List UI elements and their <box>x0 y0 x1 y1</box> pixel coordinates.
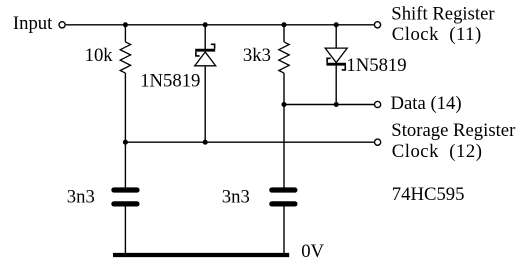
wire data node down to C2 <box>283 105 285 188</box>
wire C2 to ground rail <box>283 207 285 256</box>
junction storage rail / D1 <box>203 140 208 145</box>
wire top rail to R2 <box>283 25 285 42</box>
terminal Shift Register Clock <box>374 22 380 28</box>
node Storage Register Clock (12) label <box>391 120 516 162</box>
junction top rail / R1 <box>123 22 128 27</box>
svg-text:74HC595: 74HC595 <box>392 184 465 205</box>
junction top rail / R2 <box>281 22 286 27</box>
svg-text:Clock (12): Clock (12) <box>392 141 483 162</box>
svg-text:Input: Input <box>13 13 53 34</box>
diode D2 1N5819 (cathode down) <box>325 48 347 70</box>
resistor 10k <box>120 42 130 73</box>
resistor 3k3 <box>279 42 289 73</box>
wire top rail to R1 <box>124 25 126 42</box>
wire data rail <box>284 104 374 106</box>
junction data rail / D2 <box>334 102 339 107</box>
svg-text:1N5819: 1N5819 <box>140 71 200 92</box>
terminal Storage Register Clock <box>375 139 381 145</box>
capacitor 3n3 (left) <box>114 190 137 204</box>
svg-text:3n3: 3n3 <box>222 187 250 208</box>
svg-text:1N5819: 1N5819 <box>346 55 406 76</box>
capacitor 3n3 (right) <box>272 190 295 204</box>
svg-text:Clock (11): Clock (11) <box>392 24 482 45</box>
svg-text:3n3: 3n3 <box>67 187 95 208</box>
node Shift Register Clock (11) label <box>391 4 495 45</box>
diode D1 1N5819 (cathode up) <box>195 44 216 66</box>
junction storage rail / C1 <box>123 140 128 145</box>
input terminal <box>59 22 65 28</box>
wire storage rail to C1 <box>124 142 126 187</box>
wire R1 to storage rail <box>124 73 126 142</box>
junction top rail / D2 <box>334 22 339 27</box>
wire R2 to data rail <box>283 73 285 104</box>
junction data rail / R2 <box>281 102 286 107</box>
junction top rail / D1 <box>203 22 208 27</box>
wire D1 anode to storage rail <box>204 66 206 142</box>
wire top rail input to shift register clock terminal <box>66 24 374 26</box>
svg-text:0V: 0V <box>301 241 324 262</box>
wire top rail to D2 anode <box>335 25 337 48</box>
svg-text:Storage Register: Storage Register <box>391 120 516 141</box>
wire D2 cathode to data rail <box>335 66 337 105</box>
wire top rail to D1 cathode <box>204 25 206 49</box>
svg-text:3k3: 3k3 <box>243 45 271 66</box>
wire storage rail <box>125 141 374 143</box>
wire C1 to ground rail <box>124 207 126 256</box>
terminal Data <box>375 101 381 107</box>
ground rail 0V <box>113 253 289 257</box>
svg-text:Data (14): Data (14) <box>391 93 462 114</box>
svg-text:Shift Register: Shift Register <box>391 4 495 25</box>
svg-text:10k: 10k <box>85 45 114 66</box>
